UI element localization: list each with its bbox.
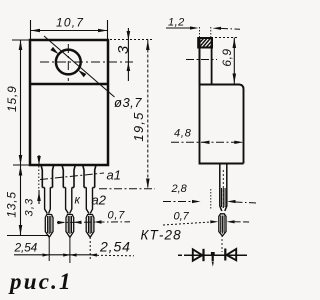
dimension 0,7 side arrow right <box>227 220 235 223</box>
hole diameter leader line <box>44 36 115 97</box>
hole vertical centerline <box>67 44 69 81</box>
lead 3 narrow part <box>86 188 92 214</box>
dimension 15,9 extension top <box>12 39 29 41</box>
svg-text:КТ-28: КТ-28 <box>141 228 182 243</box>
cathode stub lead <box>212 256 214 262</box>
common cathode node dot <box>211 252 215 256</box>
svg-text:0,7: 0,7 <box>174 211 190 223</box>
mounting hole <box>56 50 81 75</box>
svg-text:к: к <box>75 195 81 207</box>
dimension 1,2 extension <box>199 27 201 37</box>
dimension 15,9 line <box>20 40 22 165</box>
side view body outline <box>200 38 244 164</box>
dimension 19,5 arrow bottom <box>146 179 150 189</box>
dimension 1,2 arrow right <box>213 27 222 30</box>
svg-text:10,7: 10,7 <box>56 16 84 30</box>
svg-text:13,5: 13,5 <box>5 191 19 218</box>
dimension 0,7 side arrow left <box>210 220 218 223</box>
lead 1 narrow part <box>45 188 51 214</box>
dimension 3 arrow bottom <box>127 62 131 71</box>
label a1 leader <box>40 173 104 180</box>
diode VD1 triangle <box>193 249 203 260</box>
svg-text:0,7: 0,7 <box>108 210 126 222</box>
dimension 6,9 line <box>233 38 235 85</box>
lead 3 wide part <box>83 165 96 188</box>
dimension 3,3 arrow top <box>37 156 41 165</box>
package body front view <box>30 40 108 165</box>
dimension 3 line <box>127 28 129 81</box>
dimension 2,8 tail <box>236 202 258 203</box>
diode VD2 triangle <box>227 249 237 260</box>
dimension 0,7 front line <box>57 221 130 224</box>
side view tab hatched top <box>198 38 212 48</box>
dimension 4,8 arrow right <box>234 141 243 144</box>
lead 1 wide part <box>41 165 54 188</box>
svg-text:рис.1: рис.1 <box>8 269 73 294</box>
svg-text:2,54: 2,54 <box>14 241 38 255</box>
svg-text:6,9: 6,9 <box>220 48 234 66</box>
dimension 2,54 arrow at lead3 <box>90 253 97 256</box>
lead 2 narrow part <box>66 188 72 214</box>
dimension 3 arrow top <box>127 31 131 40</box>
dimension 19,5 extension bottom <box>99 188 155 190</box>
dimension 0,7 front arrow lead3 right <box>94 220 101 224</box>
dimension 0,7 side tail <box>235 221 250 223</box>
svg-text:4,8: 4,8 <box>174 128 192 140</box>
svg-text:1,2: 1,2 <box>168 17 185 29</box>
svg-text:ø3,7: ø3,7 <box>114 95 142 110</box>
dimension 13,5 extension bottom <box>7 235 49 237</box>
dimension 2,8 leader <box>163 201 192 203</box>
svg-text:15,9: 15,9 <box>5 85 19 112</box>
lead 2 bottom piece <box>66 215 74 238</box>
dimension 4,8 line <box>171 141 242 143</box>
svg-text:а1: а1 <box>107 168 121 183</box>
dimension 1,2 line left <box>166 27 190 29</box>
dimension 15,9 arrow top <box>19 40 23 50</box>
lead 3 center extension <box>89 237 91 259</box>
diode VD1 cathode bar <box>202 249 204 261</box>
dimension 6,9 arrow bottom <box>233 74 237 84</box>
dimension 6,9 extension top <box>211 37 239 39</box>
dimension 3,3 line <box>38 155 40 165</box>
dimension 1,2 arrow left <box>190 26 199 29</box>
side view lead thin part <box>219 214 226 236</box>
hole diameter arrow lower <box>78 70 86 77</box>
dimension 3,3 arrow bottom <box>37 192 41 202</box>
dimension 19,5 line <box>147 40 149 189</box>
dimension 10,7 arrow right <box>98 29 108 33</box>
dimension 4,8 arrow left <box>201 141 210 144</box>
dimension 15,9 arrow bottom <box>19 155 23 165</box>
side view lead bottom extension <box>221 235 223 252</box>
dimension 19,5 arrow top <box>146 40 150 50</box>
diode schematic wire <box>178 254 247 256</box>
body bottom extension to left <box>13 164 30 166</box>
svg-text:2,54: 2,54 <box>99 239 131 255</box>
dimension 10,7 extension right <box>107 20 109 39</box>
hole horizontal centerline <box>40 61 133 63</box>
dimension 13,5 line <box>20 165 22 236</box>
dimension 10,7 line <box>31 30 108 32</box>
dimension 0,7 front arrow lead2 right <box>74 221 82 225</box>
dimension 10,7 extension left <box>30 20 32 39</box>
lead 2 wide part <box>62 165 75 188</box>
dimension 6,9 arrow top <box>233 38 237 48</box>
dimension 1,2 tail <box>221 27 240 30</box>
dimension 10,7 arrow left <box>31 29 41 33</box>
dimension 2,54 arrows at lead2 <box>63 253 70 256</box>
lead 1 bottom piece <box>45 215 53 238</box>
dimension 13,5 arrow top <box>19 166 23 176</box>
side view centerline <box>186 59 217 61</box>
lead 3 bottom piece <box>86 215 94 238</box>
dimension 2,54 arrow at lead1 <box>43 253 50 256</box>
dimension 13,5 arrow bottom <box>19 225 23 235</box>
dimension 2,8 extension tick <box>210 189 212 210</box>
dimension 0,7 side leader <box>163 222 210 225</box>
dimension 0,7 front arrow into lead2 left <box>58 221 66 225</box>
lead 2 center extension <box>69 237 71 263</box>
dimension 2,8 arrow right <box>227 200 236 203</box>
dimension 19,5 extension top <box>110 39 153 41</box>
hole diameter arrow upper <box>50 47 58 54</box>
lead 1 center extension <box>48 238 50 261</box>
diode VD2 cathode bar <box>224 249 226 261</box>
side view lead wide part <box>220 164 227 212</box>
dimension 2,54 line <box>14 254 97 256</box>
side view tab outline <box>200 38 212 85</box>
dimension 2,8 arrow left <box>192 200 201 203</box>
tab/body separation line <box>30 83 108 85</box>
svg-text:19,5: 19,5 <box>131 111 146 141</box>
svg-text:3,3: 3,3 <box>23 198 35 217</box>
svg-text:а2: а2 <box>92 193 107 208</box>
svg-text:2,8: 2,8 <box>171 183 188 195</box>
svg-text:3: 3 <box>115 45 132 54</box>
